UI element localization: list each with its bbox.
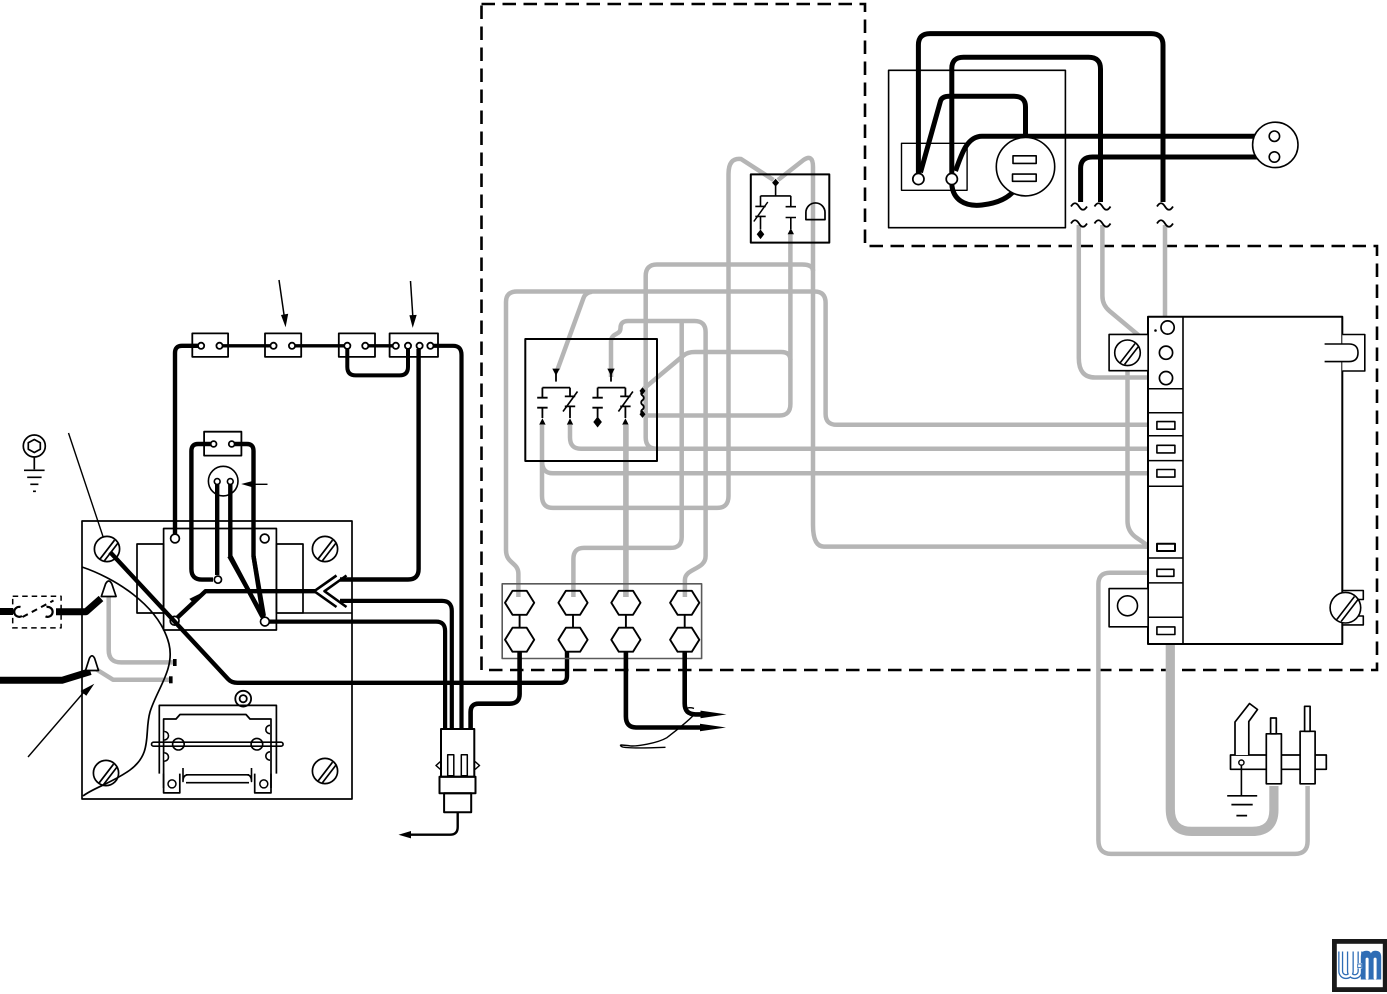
sensor node diamond bbox=[772, 179, 779, 187]
relay K1 bar screw left bbox=[173, 738, 185, 750]
pilot burner bracket bbox=[1231, 755, 1327, 769]
callout line from ground lug to box screw bbox=[69, 433, 107, 547]
Weil-McLain logo bbox=[1332, 939, 1387, 992]
wire: TB3-TB4 jumper bbox=[368, 344, 392, 347]
wire: TB1 left loop down to transformer primary bbox=[175, 346, 198, 534]
relay K1 lower insert bbox=[183, 768, 252, 783]
wire: nut 3 tail out with arrow bbox=[626, 652, 702, 728]
wire gray: hot lead from flag marker into junction box bbox=[95, 669, 171, 680]
module quick-connect slot 1 bbox=[1157, 422, 1175, 430]
wire: terminal 1 up and over to break 3 bbox=[918, 34, 1163, 202]
wire gray: gas valve leg 2 to module slot 2 horizontal run bbox=[570, 425, 1155, 449]
freeform wiring boundary curve bbox=[82, 567, 170, 796]
gas valve box bbox=[525, 339, 657, 461]
wire: TB1-TB2 jumper bbox=[223, 344, 271, 347]
ground lug symbol bbox=[23, 435, 45, 491]
wire marker flag 2 bbox=[86, 656, 99, 671]
wire: terminal 2 up and over to break 2 bbox=[952, 57, 1101, 202]
wire: connector tail lead with arrow bbox=[406, 812, 458, 835]
valve switch 2 adjustable contact bbox=[620, 388, 630, 418]
spark electrode bbox=[1266, 734, 1281, 784]
bracket ground terminal bbox=[1239, 760, 1244, 765]
wire: line voltage hot in bbox=[0, 608, 13, 615]
terminal block TB2 bbox=[265, 333, 301, 357]
black end tick gray wire 1 bbox=[173, 659, 177, 666]
wire: break 1 riser to plug pin 2 bbox=[1081, 157, 1268, 202]
wire gray: gas valve leg 1 down with branch to module slot 3 bbox=[542, 159, 774, 508]
black end tick gray wire 2 bbox=[169, 676, 173, 683]
plug connector tail bbox=[444, 793, 471, 812]
module quick-connect slot 3 bbox=[1157, 470, 1175, 478]
wire: transformer bottom-left terminal to cable chevron bbox=[178, 591, 317, 617]
wire gray: module ground screw lead to slot 4 bbox=[1128, 368, 1149, 546]
sensor dome (thermal element) bbox=[806, 203, 825, 220]
wire: TB4 right terminal down to plug connector bbox=[434, 346, 462, 729]
relay K1 outer bracket bbox=[159, 705, 276, 773]
wire gray: module slot 5 loop to igniter sense electrode bbox=[1098, 573, 1307, 854]
module terminal circle 2 bbox=[1159, 346, 1172, 359]
valve switch 1 fixed contact (capacitor) bbox=[537, 388, 547, 418]
transformer left winding bbox=[137, 544, 164, 613]
wire gray: rollout sensor right side riser down to module slot 4 bbox=[778, 158, 1154, 548]
plug connector prong 2 bbox=[461, 755, 467, 776]
relay K1 feet bbox=[164, 774, 271, 793]
wire gray net: gas valve node 2 riser to wire nut 4 bbox=[611, 321, 706, 597]
service disconnect switch (dashed box) bbox=[13, 596, 61, 628]
transformer terminal bottom-left bbox=[170, 616, 179, 625]
screw bottom-right bbox=[312, 758, 337, 783]
wire gray: branch to valve coil top diagonal bbox=[644, 352, 790, 389]
wire: transformer bottom-right terminal across to plug connector bbox=[269, 622, 445, 729]
plug connector side arrows bbox=[436, 762, 480, 770]
logo W (outlined tubes) bbox=[1341, 952, 1360, 977]
valve switch 1 tee bbox=[542, 387, 570, 389]
relay K1 bar screw right bbox=[251, 738, 263, 750]
rollout / pilot sensor box bbox=[751, 174, 830, 242]
valve switch 2 tee bbox=[598, 387, 626, 389]
wire gray: break 2 lead to module terminal 2 bbox=[1102, 225, 1158, 353]
module bottom mounting ear bbox=[1342, 591, 1363, 625]
module column separators bbox=[1148, 389, 1183, 618]
wire gray: branch from right riser to slot2 run bbox=[646, 265, 813, 449]
wire break symbol 2 bbox=[1095, 203, 1111, 227]
wire: line voltage neutral in bbox=[0, 672, 91, 681]
module quick-connect slot 6 bbox=[1157, 627, 1175, 635]
valve switch 2 node arrow bbox=[607, 369, 614, 376]
wire: chevron upper lead up to TB4 terminal 3 bbox=[340, 349, 419, 580]
receptacle outlet bbox=[996, 138, 1054, 196]
wire gray: rollout sensor output lead down the valve coil bottom bbox=[644, 234, 790, 416]
receptacle terminal 2 bbox=[946, 173, 957, 184]
valve coil bbox=[641, 391, 644, 414]
freehand cable tie squiggle bbox=[620, 708, 695, 748]
module ground screw box bbox=[1109, 334, 1148, 370]
wire gray: gas valve leg 4 down to wire nut 3 bbox=[623, 425, 629, 597]
wire break symbol 1 bbox=[1071, 203, 1087, 227]
wire marker flag 1 bbox=[101, 581, 116, 597]
wire: TB2-TB3 jumper bbox=[295, 344, 344, 347]
wire: terminal 1 diagonal up to receptacle hot slot bbox=[921, 96, 1026, 172]
wire: pilot light left lead bbox=[215, 485, 219, 576]
terminal block TB5 (pilot) bbox=[204, 432, 241, 456]
module top mounting ear bbox=[1342, 335, 1365, 372]
screw top-right bbox=[312, 536, 337, 561]
junction box plate bbox=[82, 521, 352, 799]
module terminal circle 3 bbox=[1159, 372, 1172, 385]
wire: transformer secondary diagonals joining bottom-right terminal bbox=[229, 556, 263, 618]
callout arrow to wire splice bbox=[28, 692, 84, 757]
wire gray: neutral lead from flag marker into junction box bbox=[109, 594, 175, 662]
line cord plug bbox=[1253, 122, 1298, 167]
screw bottom-left bbox=[93, 760, 118, 785]
wire nut pair 2 bbox=[558, 591, 587, 615]
relay K1 mounting ring bbox=[235, 691, 251, 707]
wire gray: break 1 lead to module terminal 3 bbox=[1079, 225, 1157, 378]
sensor adjustable contact bbox=[755, 196, 765, 230]
transformer terminal middle bbox=[214, 576, 221, 583]
plug connector flange bbox=[440, 777, 476, 794]
ignition control module body bbox=[1148, 317, 1342, 644]
sense electrode bbox=[1300, 731, 1315, 784]
wire nut strip enclosure bbox=[502, 584, 701, 659]
receptacle terminal 1 bbox=[913, 173, 924, 184]
wire gray: slot 3 horizontal run bbox=[542, 461, 1155, 473]
plug connector body bbox=[441, 729, 474, 777]
callout arrow to pilot light bbox=[254, 483, 268, 485]
wire: chevron lower lead down to plug connector bbox=[340, 601, 452, 729]
relay K1 body bbox=[164, 715, 271, 789]
pilot indicator light bbox=[208, 466, 238, 496]
terminal block TB3 bbox=[339, 333, 375, 357]
relay K1 side notches bbox=[164, 725, 270, 761]
wire: terminal 2 curved under receptacle bbox=[952, 185, 1017, 206]
transformer terminal top-right bbox=[260, 534, 269, 543]
wire: ground from screw diagonal then across to wire nut 2 bbox=[110, 552, 567, 683]
pilot gas tube bbox=[1235, 704, 1258, 756]
wire gray thick: module bottom slot cable to igniter spark electrode bbox=[1170, 637, 1274, 831]
wire gray: wire nut 2 riser to rollout box right riser bbox=[573, 320, 681, 597]
wire: U loop TB3 left to TB4 terminal 2 bbox=[347, 349, 408, 376]
arrowhead on hot lead diagonal bbox=[189, 594, 200, 605]
module quick-connect slot 4 bbox=[1157, 544, 1175, 551]
wire: TB5 left to transformer mid terminal bbox=[191, 444, 213, 580]
relay K1 bar bbox=[152, 742, 284, 746]
transformer terminal bottom-right bbox=[261, 617, 270, 626]
valve switch 1 node arrow bbox=[552, 369, 559, 376]
receptacle junction box bbox=[889, 70, 1066, 227]
sensor fixed contact bbox=[786, 196, 796, 229]
logo m (solid) bbox=[1361, 951, 1381, 980]
transformer right winding bbox=[276, 544, 303, 613]
logo hyphen bbox=[1357, 963, 1362, 968]
wire nut pair 3 bbox=[611, 591, 640, 615]
terminal block TB1 bbox=[192, 333, 228, 357]
wire nut pair 4 bbox=[670, 591, 699, 615]
wire gray net: wire nut 1 riser to gas valve node 1 and module terminal slot 1 bbox=[506, 292, 1155, 598]
transformer terminal top-left bbox=[171, 534, 180, 543]
wire gray: break 3 lead to module terminal 1 bbox=[1163, 225, 1168, 321]
wire break symbol 3 bbox=[1157, 203, 1173, 227]
screw top-left bbox=[94, 536, 119, 561]
wire: terminal 2 to plug pin 1 bbox=[956, 136, 1269, 171]
sensor tee bbox=[761, 195, 791, 197]
transformer T1 core bbox=[164, 529, 277, 631]
wire: TB5 right diagonal to transformer secondary bbox=[235, 444, 264, 616]
ground symbol bbox=[1240, 765, 1242, 795]
callout arrow to TB2 bbox=[279, 280, 284, 316]
wire: pilot light right lead bbox=[230, 485, 262, 618]
transformer shelf line bbox=[303, 612, 352, 614]
terminal block TB4 bbox=[390, 333, 438, 357]
module terminal column divider bbox=[1182, 317, 1184, 644]
wire nut pair 1 bbox=[505, 591, 534, 615]
module quick-connect slot 2 bbox=[1157, 445, 1175, 453]
receptacle terminal sub-box bbox=[902, 143, 968, 190]
valve switch 2 fixed contact bbox=[592, 388, 602, 418]
cable clamp chevron marks bbox=[314, 576, 346, 608]
wire: nut 4 tail out with arrow bbox=[685, 652, 702, 715]
field wiring boundary (dashed enclosure) bbox=[482, 4, 1378, 670]
wire: nut 1 tail to plug connector bbox=[471, 652, 520, 729]
wire gray: branch diagonal to gas valve node 1 bbox=[558, 292, 593, 370]
valve switch 1 adjustable contact (slashed capacitor) bbox=[565, 388, 575, 418]
module lower mounting box bbox=[1109, 589, 1148, 627]
module quick-connect slot 5 bbox=[1157, 569, 1174, 576]
callout arrow to TB4 bbox=[411, 281, 413, 316]
module terminal circle 1 bbox=[1161, 321, 1174, 334]
plug connector prong 1 bbox=[448, 755, 454, 776]
